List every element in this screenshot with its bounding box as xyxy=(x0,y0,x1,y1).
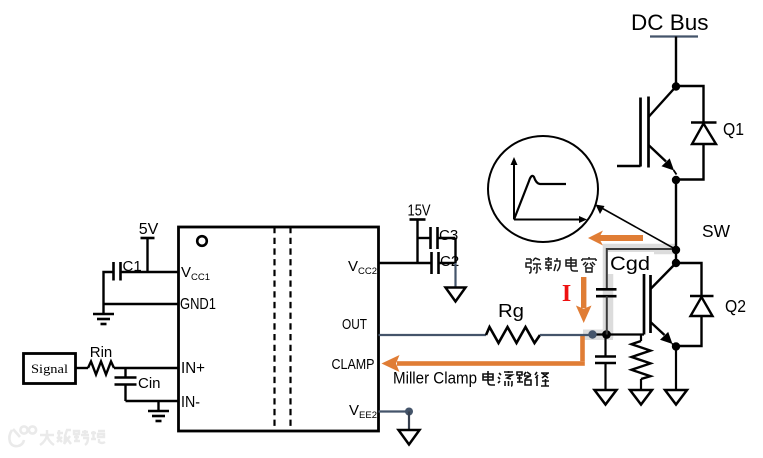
svg-text:Miller Clamp: Miller Clamp xyxy=(393,370,477,388)
ground (triangle) below Rge xyxy=(630,390,652,405)
label Rg xyxy=(498,300,524,321)
svg-text:IN-: IN- xyxy=(181,394,200,411)
capacitor Cin xyxy=(115,368,137,401)
resistor Rin xyxy=(88,362,114,375)
svg-text:Q2: Q2 xyxy=(725,296,746,316)
wire VCC2 xyxy=(379,262,432,264)
DC Bus label xyxy=(631,10,709,35)
ground (earth) at IN- xyxy=(148,401,169,421)
pin label OUT xyxy=(342,316,367,333)
IC isolation barrier dashed lines xyxy=(275,227,291,431)
label Q1 xyxy=(723,119,744,139)
pin label IN+ xyxy=(181,360,205,377)
svg-text:Q1: Q1 xyxy=(723,119,744,139)
wire C2 to ground (slate) xyxy=(454,263,456,287)
wire Cin to IN- xyxy=(126,400,179,402)
transistor Q2 (IGBT) xyxy=(644,263,676,347)
wire VEE2 (slate) xyxy=(379,410,410,412)
node VEE2 dot (slate) xyxy=(405,408,413,416)
capacitor C3 xyxy=(418,227,456,263)
svg-text:GND1: GND1 xyxy=(180,296,216,313)
node Q1 emitter dot xyxy=(672,176,680,184)
wire GND1 xyxy=(104,303,179,305)
resistor Rge (gate to ground) xyxy=(632,335,651,390)
waveform curve xyxy=(514,176,566,220)
svg-text:Signal: Signal xyxy=(31,361,68,376)
svg-text:OUT: OUT xyxy=(342,316,367,333)
node Q2 collector dot xyxy=(672,259,680,267)
svg-text:I: I xyxy=(562,281,571,307)
label Q2 xyxy=(725,296,746,316)
label C3 xyxy=(439,227,458,244)
wire OUT (slate) xyxy=(379,334,487,336)
diode D2 (antiparallel with Q2) xyxy=(676,263,714,346)
svg-text:Rg: Rg xyxy=(498,300,524,321)
diode D1 (antiparallel with Q1) xyxy=(676,86,717,180)
label C2 xyxy=(440,253,459,270)
5V supply label xyxy=(139,221,159,238)
svg-text:15V: 15V xyxy=(408,203,431,220)
wire Rg to gate node (slate) xyxy=(540,334,592,336)
ground (triangle) at VEE2 xyxy=(399,430,420,445)
pin label VEE2 xyxy=(349,402,377,421)
wire Q2 emitter to ground xyxy=(675,347,677,390)
label 弥勒电容 (Miller capacitance) xyxy=(526,257,596,273)
label SW xyxy=(702,221,730,241)
15V supply bar and lead xyxy=(410,220,426,264)
svg-text:SW: SW xyxy=(702,221,730,241)
current-path gray highlight xyxy=(583,249,676,340)
node (slate dot) at Rg/clamp junction xyxy=(588,330,596,338)
ground (triangle) below C2 xyxy=(446,288,466,302)
svg-text:C3: C3 xyxy=(439,227,458,244)
node Q1 collector dot xyxy=(672,82,680,90)
wire C1 left to ground branch xyxy=(104,272,114,304)
pin label IN- xyxy=(181,394,200,411)
waveform axes xyxy=(511,157,588,223)
arrow I (orange, Miller current into gate node) xyxy=(576,277,592,323)
15V supply label xyxy=(408,203,431,220)
5V supply bar and lead xyxy=(141,238,155,272)
transistor Q1 (IGBT) xyxy=(617,87,677,175)
node Q2 emitter dot xyxy=(672,342,680,350)
DC Bus rail (slate underline) xyxy=(650,35,698,37)
label C1 xyxy=(123,258,142,275)
pin label GND1 xyxy=(180,296,216,313)
arrow Miller Clamp path (orange, from OUT node into CLAMP pin) xyxy=(382,336,585,372)
callout leader line with arrowhead xyxy=(596,205,677,250)
svg-text:Cin: Cin xyxy=(138,375,161,392)
wire signal to Rin xyxy=(76,367,89,369)
label Cgd xyxy=(608,252,654,275)
svg-text:5V: 5V xyxy=(139,221,159,238)
pin label VCC2 xyxy=(348,258,377,277)
label Miller Clamp 电流路径 xyxy=(393,370,477,388)
ground (triangle) at Q2 emitter xyxy=(665,390,687,405)
pin label VCC1 xyxy=(181,264,210,283)
arrow (orange, from SW toward circle callout) xyxy=(588,231,643,246)
IC U1 body xyxy=(179,227,379,431)
svg-text:CLAMP: CLAMP xyxy=(332,357,375,373)
label Rin xyxy=(90,344,113,361)
capacitor C2 xyxy=(432,252,456,274)
capacitor C1 xyxy=(114,262,121,281)
wire VEE2 to ground xyxy=(408,412,410,430)
capacitor Cgd xyxy=(596,289,617,334)
ground (triangle) below Cgs xyxy=(595,390,617,405)
wire DC Bus to Q1 collector xyxy=(675,37,677,87)
wire C1 to VCC1 pin xyxy=(121,271,179,273)
node SW dot xyxy=(672,246,680,254)
label I (current, red serif) xyxy=(562,281,571,307)
wire SW to Cgd (thin dark) xyxy=(607,249,676,289)
watermark text 大数跨境 xyxy=(40,430,105,445)
svg-text:IN+: IN+ xyxy=(181,360,205,377)
ground (earth) at C1 xyxy=(93,304,114,324)
svg-text:DC Bus: DC Bus xyxy=(631,10,709,35)
wire gate node to Q2 gate xyxy=(592,333,644,335)
label Cin xyxy=(138,375,161,392)
resistor Rg xyxy=(486,327,540,343)
node (black dot) at Cgd/gate junction xyxy=(602,330,611,339)
callout circle (gate voltage waveform) xyxy=(488,136,598,242)
pin label CLAMP xyxy=(332,357,375,373)
svg-text:Cgd: Cgd xyxy=(610,254,650,275)
signal source box xyxy=(24,354,76,384)
wire SW (Q1 emitter to Q2 collector) xyxy=(675,180,677,263)
wire Rin to IN+ xyxy=(114,367,179,369)
svg-text:Rin: Rin xyxy=(90,344,113,361)
IC pin-1 indicator circle xyxy=(197,236,207,246)
capacitor Cgs (gate to ground) xyxy=(595,335,616,390)
watermark logo xyxy=(9,426,36,446)
